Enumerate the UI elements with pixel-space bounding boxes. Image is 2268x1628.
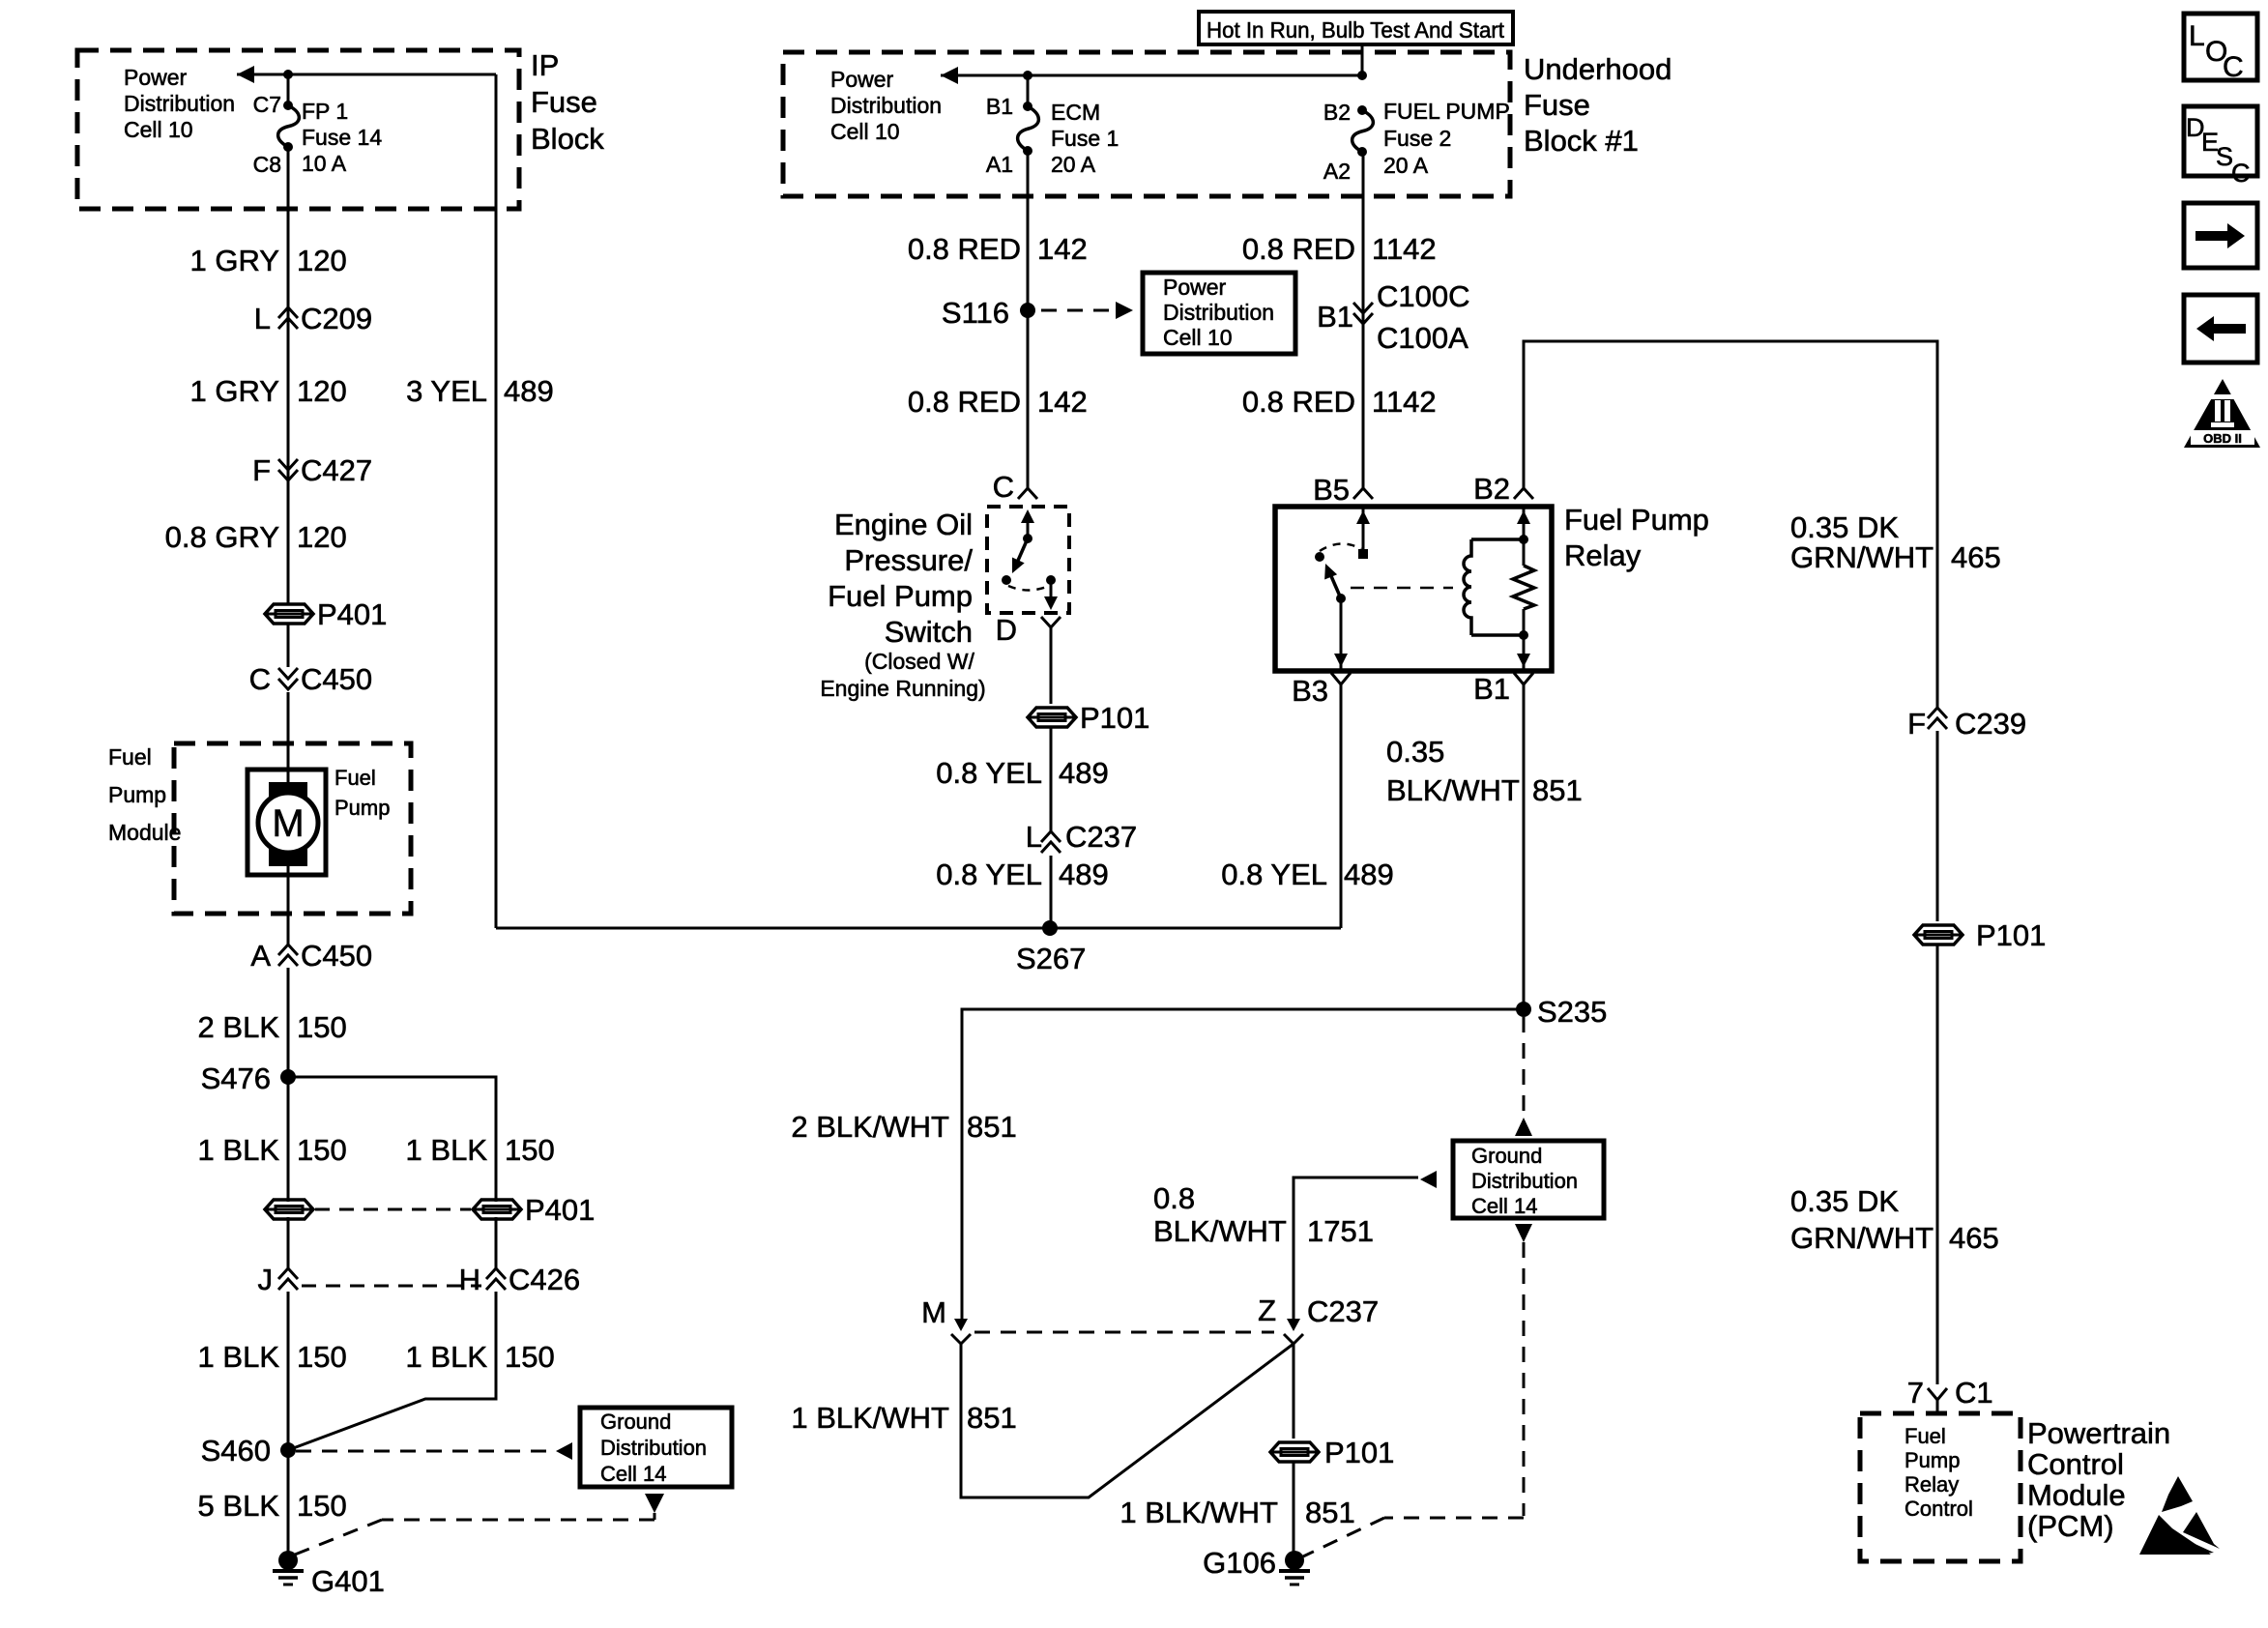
label: 0.35 DK GRN/WHT 465 (upper) <box>1790 510 2001 574</box>
wire segment <box>287 1217 290 1268</box>
connector C426 pin H <box>459 1263 581 1296</box>
svg-text:C427: C427 <box>301 453 372 487</box>
connector pin D (switch) <box>996 613 1061 647</box>
svg-text:489: 489 <box>504 374 554 408</box>
svg-text:G106: G106 <box>1203 1546 1276 1580</box>
wire: C7 stub <box>287 74 290 105</box>
wire: S235 bus <box>962 1009 1524 1323</box>
relay: B5 pin line <box>1356 507 1370 559</box>
svg-text:Switch: Switch <box>885 615 973 649</box>
svg-text:A1: A1 <box>986 152 1013 177</box>
svg-text:Hot In Run, Bulb Test And Star: Hot In Run, Bulb Test And Start <box>1207 17 1505 43</box>
wire: 3 YEL 489 drop <box>495 74 498 928</box>
svg-text:L: L <box>254 302 271 335</box>
svg-text:M: M <box>272 802 304 845</box>
svg-text:Distribution: Distribution <box>124 91 235 116</box>
svg-text:Fuse 1: Fuse 1 <box>1051 126 1119 151</box>
svg-text:1 BLK: 1 BLK <box>406 1133 488 1167</box>
svg-text:465: 465 <box>1949 1221 1999 1255</box>
svg-text:C: C <box>249 662 271 696</box>
wire: 0.8 BLK/WHT 1751 <box>1294 1177 1418 1323</box>
connector pin C (switch) <box>993 470 1037 504</box>
relay: B2 pin line with resistor <box>1513 507 1534 671</box>
svg-text:(Closed W/: (Closed W/ <box>864 649 974 674</box>
label: 0.8 YEL 489 (row1) <box>936 756 1108 790</box>
svg-text:P101: P101 <box>1976 918 2046 952</box>
connector C450 pin C <box>249 662 373 696</box>
svg-text:20 A: 20 A <box>1051 152 1096 177</box>
dashed arrow to Power Distribution box <box>1041 309 1112 312</box>
node S460 <box>280 1442 296 1458</box>
svg-text:0.8 RED: 0.8 RED <box>1242 385 1355 419</box>
wire: B1 to S235 <box>1523 684 1526 1009</box>
wire: 0.8 YEL 489 (D) <box>1050 627 1053 704</box>
svg-text:C239: C239 <box>1955 707 2026 741</box>
label: 0.8 RED 1142 (row2) <box>1242 385 1437 419</box>
connector C209 pin L <box>254 302 372 335</box>
svg-text:Fuel: Fuel <box>1905 1424 1946 1448</box>
wire segment <box>1936 945 1939 1384</box>
label: 1 GRY 120 (row2) <box>190 374 347 408</box>
svg-text:1 BLK/WHT: 1 BLK/WHT <box>791 1401 949 1435</box>
svg-text:465: 465 <box>1951 540 2001 574</box>
svg-text:L: L <box>1026 820 1042 854</box>
svg-text:2 BLK/WHT: 2 BLK/WHT <box>791 1110 949 1144</box>
svg-text:1 BLK/WHT: 1 BLK/WHT <box>1119 1496 1278 1529</box>
label P101 (switch) <box>1080 701 1149 735</box>
arrow (left ground box) <box>556 1442 572 1460</box>
svg-text:Pump: Pump <box>108 782 166 807</box>
svg-text:B1: B1 <box>1473 672 1510 706</box>
svg-text:(PCM): (PCM) <box>2027 1509 2114 1543</box>
dashed: ground dist to G106 <box>1303 1242 1524 1556</box>
svg-text:120: 120 <box>297 244 347 277</box>
svg-text:0.8 RED: 0.8 RED <box>908 385 1021 419</box>
wire segment <box>287 1292 290 1450</box>
dashed link C237 M-Z <box>974 1331 1274 1334</box>
label: Engine Oil Pressure/Fuel Pump Switch <box>828 508 973 649</box>
connector C100C/C100A pin B1 <box>1317 279 1469 355</box>
IP Fuse Block dashed box <box>77 50 519 209</box>
label pin B1 (fuse1) <box>986 94 1013 119</box>
svg-text:5 BLK: 5 BLK <box>198 1489 280 1523</box>
label: 2 BLK/WHT 851 <box>791 1110 1016 1144</box>
svg-text:Distribution: Distribution <box>1163 300 1274 325</box>
wire: 1 GRY 120 segment <box>287 147 290 603</box>
label: 0.8 YEL 489 (B3 branch) <box>1221 858 1393 891</box>
label: 1 BLK/WHT 851 (left) <box>791 1401 1016 1435</box>
wire: B1 stub <box>1027 75 1030 106</box>
svg-text:D: D <box>996 613 1017 647</box>
wire segment <box>287 968 290 1202</box>
connector C450 pin A <box>250 939 372 973</box>
wire: S267 bus <box>496 927 1341 930</box>
wire segment <box>287 625 290 667</box>
svg-text:Pump: Pump <box>1905 1448 1960 1472</box>
svg-text:Fuse: Fuse <box>531 85 597 119</box>
relay: coil top dot <box>1519 535 1528 544</box>
svg-text:Power: Power <box>830 67 894 92</box>
svg-text:FP 1: FP 1 <box>302 99 348 124</box>
connector C237 pin L <box>1026 820 1137 854</box>
node: bus dot at hot drop <box>1357 71 1367 80</box>
Hot In Run box <box>1199 12 1513 44</box>
svg-text:F: F <box>252 453 271 487</box>
label: 0.8 RED 142 (row2) <box>908 385 1088 419</box>
label S235 <box>1537 995 1607 1029</box>
svg-text:Engine Oil: Engine Oil <box>834 508 973 541</box>
label: Fuel Pump (module) <box>334 766 390 820</box>
svg-text:S116: S116 <box>942 296 1009 330</box>
svg-text:A2: A2 <box>1323 159 1351 184</box>
label: 1 GRY 120 (row1) <box>190 244 347 277</box>
svg-text:1 BLK: 1 BLK <box>406 1340 488 1374</box>
relay coil <box>1464 539 1524 635</box>
switch: right contact to D <box>1044 575 1058 610</box>
svg-text:C: C <box>2223 51 2244 83</box>
label G106 <box>1203 1546 1276 1580</box>
label: 1 BLK 150 (row2 left) <box>198 1340 347 1374</box>
label: Ground Distribution Cell 14 (right) <box>1471 1144 1578 1218</box>
svg-text:1 BLK: 1 BLK <box>198 1133 280 1167</box>
dashed: S460 to Ground Distribution <box>296 1450 553 1453</box>
grommet P101 (right) <box>1914 925 1963 945</box>
fuse FUEL PUMP Fuse 2 20A <box>1352 105 1374 157</box>
Engine Oil Pressure switch dashed box <box>987 507 1069 613</box>
svg-text:Pressure/: Pressure/ <box>844 543 973 577</box>
label S460 <box>201 1434 271 1468</box>
svg-text:C450: C450 <box>301 662 372 696</box>
label P101 (bottom) <box>1324 1436 1394 1469</box>
svg-text:F: F <box>1907 707 1926 741</box>
svg-text:Fuel Pump: Fuel Pump <box>828 579 973 613</box>
wire: S476 right branch <box>288 1077 496 1202</box>
svg-text:1142: 1142 <box>1372 232 1437 266</box>
label: FUEL PUMP / Fuse 2 / 20 A <box>1383 99 1510 178</box>
grommet P101 (bottom) <box>1270 1442 1319 1462</box>
svg-text:10 A: 10 A <box>302 151 347 176</box>
wire: IP fuse block bus <box>237 73 496 76</box>
svg-text:Distribution: Distribution <box>830 93 942 118</box>
label: 0.8 BLK/WHT 1751 <box>1153 1181 1374 1248</box>
arrow down (ground dist left) <box>645 1494 664 1513</box>
svg-text:Block #1: Block #1 <box>1524 124 1639 158</box>
label: 0.35 DK GRN/WHT 465 (lower) <box>1790 1184 1999 1255</box>
node S267 <box>1042 920 1058 936</box>
label: Power Distribution Cell 10 (underhood) <box>830 67 942 144</box>
svg-text:Fuse: Fuse <box>1524 88 1590 122</box>
arrow to Power Distribution (IP) <box>237 66 254 83</box>
svg-text:S267: S267 <box>1016 942 1086 975</box>
svg-text:1 GRY: 1 GRY <box>190 244 279 277</box>
svg-text:H: H <box>459 1263 480 1296</box>
label pin C7 <box>253 92 281 117</box>
label: Power Distribution Cell 10 (box) <box>1163 275 1274 350</box>
svg-text:489: 489 <box>1059 858 1109 891</box>
svg-text:Power: Power <box>124 65 188 90</box>
svg-text:C100A: C100A <box>1377 321 1468 355</box>
wire segment <box>1936 731 1939 921</box>
fuel pump motor M <box>247 770 326 875</box>
dashed: ground bus to G401 <box>295 1513 654 1555</box>
svg-text:C8: C8 <box>253 152 281 177</box>
svg-text:0.8 RED: 0.8 RED <box>1242 232 1355 266</box>
svg-text:L: L <box>2189 20 2205 52</box>
grommet P401 (top) <box>265 604 313 624</box>
connector C237 pin M <box>921 1295 971 1344</box>
label: Fuel Pump Relay Control <box>1905 1424 1973 1521</box>
grommet P401 (right) <box>473 1200 521 1219</box>
svg-text:Cell 10: Cell 10 <box>1163 325 1233 350</box>
svg-text:Control: Control <box>1905 1497 1973 1521</box>
switch: C contact pin <box>1021 509 1034 543</box>
svg-text:Module: Module <box>2027 1478 2126 1512</box>
svg-text:BLK/WHT: BLK/WHT <box>1153 1214 1287 1248</box>
svg-text:142: 142 <box>1037 385 1088 419</box>
label: Powertrain Control Module (PCM) <box>2027 1416 2170 1543</box>
label: Hot In Run, Bulb Test And Start <box>1207 17 1505 43</box>
label pin C8 <box>253 152 281 177</box>
connector C1 pin 7 <box>1907 1376 1993 1413</box>
svg-text:C426: C426 <box>509 1263 580 1296</box>
connector pin B2 (relay) <box>1473 472 1533 506</box>
wire segment <box>495 1217 498 1268</box>
wire: underhood bus <box>941 74 1362 77</box>
svg-text:0.8 YEL: 0.8 YEL <box>936 756 1042 790</box>
svg-text:1751: 1751 <box>1307 1214 1374 1248</box>
svg-text:150: 150 <box>505 1133 555 1167</box>
label: 1 BLK/WHT 851 (G106) <box>1119 1496 1354 1529</box>
svg-text:Pump: Pump <box>334 796 390 820</box>
dashed link P401 <box>315 1208 471 1211</box>
svg-text:20 A: 20 A <box>1383 153 1429 178</box>
svg-text:Fuel: Fuel <box>108 744 152 770</box>
svg-text:Cell 10: Cell 10 <box>830 119 900 144</box>
label: Fuel Pump Relay <box>1564 503 1709 572</box>
svg-text:Relay: Relay <box>1905 1472 1959 1497</box>
svg-text:851: 851 <box>1305 1496 1355 1529</box>
svg-text:B1: B1 <box>1317 300 1353 334</box>
svg-text:0.8: 0.8 <box>1153 1181 1195 1215</box>
svg-text:Distribution: Distribution <box>600 1436 707 1460</box>
svg-text:0.35 DK: 0.35 DK <box>1790 1184 1899 1218</box>
svg-text:P401: P401 <box>525 1193 595 1227</box>
svg-text:FUEL PUMP: FUEL PUMP <box>1383 99 1510 124</box>
svg-text:Fuse 2: Fuse 2 <box>1383 126 1451 151</box>
label P401 (bottom) <box>525 1193 595 1227</box>
svg-text:B2: B2 <box>1473 472 1510 506</box>
svg-text:B2: B2 <box>1323 100 1351 125</box>
wire: hot feed drop <box>1361 44 1364 75</box>
switch: left contact dot <box>1002 575 1011 585</box>
Fuel Pump Module dashed box <box>174 743 411 914</box>
svg-text:150: 150 <box>297 1133 347 1167</box>
label: Power Distribution Cell 10 (IP) <box>124 65 235 142</box>
label pin A2 (fuse2) <box>1323 159 1351 184</box>
svg-text:Fuel Pump: Fuel Pump <box>1564 503 1709 537</box>
svg-text:S460: S460 <box>201 1434 271 1468</box>
wire: Z to G106 <box>1293 1344 1295 1439</box>
label S267 <box>1016 942 1086 975</box>
connector C239 pin F <box>1907 707 2026 741</box>
label: 2 BLK 150 <box>198 1010 347 1044</box>
label: 1 BLK 150 (row1 right) <box>406 1133 555 1167</box>
label P101 (right) <box>1976 918 2046 952</box>
wire: 0.8 RED 142 <box>1027 151 1030 488</box>
svg-text:Fuel: Fuel <box>334 766 376 790</box>
svg-text:Cell 14: Cell 14 <box>1471 1194 1537 1218</box>
svg-text:120: 120 <box>297 520 347 554</box>
arrow down (ground dist right) <box>1515 1224 1532 1242</box>
label G401 <box>311 1564 385 1598</box>
label pin A1 (fuse1) <box>986 152 1013 177</box>
wire segment <box>287 692 290 786</box>
wire: B3 to S267 bus <box>1340 684 1343 928</box>
svg-text:1 BLK: 1 BLK <box>198 1340 280 1374</box>
Ground Distribution Cell 14 box (right) <box>1453 1141 1604 1218</box>
wire: 0.35 DK GRN/WHT 465 <box>1524 341 1937 708</box>
svg-text:3 YEL: 3 YEL <box>406 374 487 408</box>
connector pin B5 (relay) <box>1313 473 1373 507</box>
svg-text:851: 851 <box>967 1401 1017 1435</box>
ground G106 <box>1279 1551 1310 1584</box>
svg-text:150: 150 <box>505 1340 555 1374</box>
node S116 <box>1020 303 1035 318</box>
svg-text:7: 7 <box>1907 1376 1924 1410</box>
svg-text:Control: Control <box>2027 1447 2124 1481</box>
svg-text:150: 150 <box>297 1340 347 1374</box>
relay: dashed link to coil <box>1351 587 1453 590</box>
svg-text:Cell 14: Cell 14 <box>600 1462 666 1486</box>
svg-text:1 GRY: 1 GRY <box>190 374 279 408</box>
svg-text:C209: C209 <box>301 302 372 335</box>
label: Fuel Pump Module <box>108 744 181 845</box>
svg-text:Ground: Ground <box>600 1410 671 1434</box>
svg-text:0.8 YEL: 0.8 YEL <box>936 858 1042 891</box>
wire segment <box>287 863 290 945</box>
connector C427 pin F <box>252 453 372 487</box>
svg-text:Power: Power <box>1163 275 1227 300</box>
switch: blade arm <box>1012 538 1028 573</box>
svg-text:B3: B3 <box>1292 674 1328 708</box>
icon: LOC box <box>2184 14 2257 83</box>
icon: right arrow box <box>2184 203 2257 268</box>
wire segment <box>287 1450 290 1553</box>
svg-text:Relay: Relay <box>1564 538 1642 572</box>
relay: B3 pin line <box>1334 598 1348 671</box>
fuse FP 1 (Fuse 14 10A) <box>278 101 300 152</box>
svg-text:Module: Module <box>108 820 181 845</box>
relay: fixed contact <box>1315 552 1324 562</box>
svg-text:Powertrain: Powertrain <box>2027 1416 2170 1450</box>
wire segment <box>1050 728 1053 832</box>
svg-text:1142: 1142 <box>1372 385 1437 419</box>
svg-text:S235: S235 <box>1537 995 1607 1029</box>
svg-text:C7: C7 <box>253 92 281 117</box>
label: 0.8 YEL 489 (row2) <box>936 858 1108 891</box>
svg-text:C237: C237 <box>1065 820 1137 854</box>
svg-text:Underhood: Underhood <box>1524 52 1672 86</box>
svg-text:B5: B5 <box>1313 473 1350 507</box>
svg-text:Fuse 14: Fuse 14 <box>302 125 382 150</box>
node S476 <box>280 1069 296 1085</box>
svg-text:150: 150 <box>297 1010 347 1044</box>
label: 3 YEL 489 <box>406 374 554 408</box>
svg-text:A: A <box>250 939 271 973</box>
icon: DESC box <box>2184 106 2257 188</box>
svg-text:2 BLK: 2 BLK <box>198 1010 280 1044</box>
svg-text:C450: C450 <box>301 939 372 973</box>
svg-text:C237: C237 <box>1307 1294 1379 1328</box>
svg-text:150: 150 <box>297 1489 347 1523</box>
svg-text:0.35 DK: 0.35 DK <box>1790 510 1899 544</box>
fuse ECM Fuse 1 20A <box>1018 102 1039 156</box>
ESD symbol <box>2139 1476 2220 1555</box>
svg-text:OBD II: OBD II <box>2203 431 2242 446</box>
label: 0.8 GRY 120 <box>165 520 347 554</box>
svg-text:GRN/WHT: GRN/WHT <box>1790 540 1934 574</box>
svg-text:G401: G401 <box>311 1564 385 1598</box>
svg-text:0.35: 0.35 <box>1386 735 1444 769</box>
label: IP Fuse Block <box>531 48 604 156</box>
svg-text:S476: S476 <box>201 1061 271 1095</box>
dashed: S235 to ground dist <box>1523 1017 1526 1116</box>
node S235 <box>1516 1002 1531 1017</box>
grommet P101 (switch) <box>1028 708 1076 727</box>
svg-text:J: J <box>258 1263 274 1296</box>
svg-text:851: 851 <box>967 1110 1017 1144</box>
relay: coil bottom dot <box>1519 630 1528 640</box>
icon: left arrow box <box>2184 295 2257 363</box>
svg-text:0.8 YEL: 0.8 YEL <box>1221 858 1327 891</box>
svg-text:851: 851 <box>1532 773 1583 807</box>
svg-text:GRN/WHT: GRN/WHT <box>1790 1221 1934 1255</box>
wire: 0.8 RED 1142 <box>1362 152 1365 488</box>
svg-text:BLK/WHT: BLK/WHT <box>1386 773 1520 807</box>
svg-text:489: 489 <box>1344 858 1394 891</box>
arrow (right ground box) <box>1420 1171 1437 1188</box>
grommet P401 (left) <box>265 1200 313 1219</box>
connector pin B1 (relay) <box>1473 672 1533 706</box>
svg-text:C1: C1 <box>1955 1376 1993 1410</box>
Power Distribution Cell 10 box <box>1143 273 1295 354</box>
svg-text:P101: P101 <box>1080 701 1149 735</box>
svg-text:Cell 10: Cell 10 <box>124 117 193 142</box>
Ground Distribution Cell 14 box (left) <box>580 1408 732 1487</box>
label: Underhood Fuse Block #1 <box>1524 52 1672 158</box>
node: bus dot at ECM fuse <box>1023 71 1032 80</box>
relay: pivot dot <box>1336 594 1346 603</box>
svg-text:120: 120 <box>297 374 347 408</box>
svg-text:Z: Z <box>1258 1294 1276 1327</box>
dashed link C426 <box>302 1285 481 1288</box>
Underhood Fuse Block dashed box <box>783 52 1510 196</box>
svg-text:489: 489 <box>1059 756 1109 790</box>
svg-text:0.8 GRY: 0.8 GRY <box>165 520 279 554</box>
node: bus junction dot <box>283 70 293 79</box>
Fuel Pump Relay box <box>1275 507 1552 671</box>
wire segment <box>1293 1463 1295 1553</box>
label: 5 BLK 150 <box>198 1489 347 1523</box>
svg-text:IP: IP <box>531 48 559 82</box>
label pin B2 (fuse2) <box>1323 100 1351 125</box>
label: 1 BLK 150 (row1 left) <box>198 1133 347 1167</box>
label: 1 BLK 150 (row2 right) <box>406 1340 555 1374</box>
arrow to Power Distribution (underhood) <box>941 67 958 84</box>
wire segment <box>1050 856 1053 928</box>
label P401 (top) <box>317 597 387 631</box>
ground G401 <box>273 1551 304 1584</box>
